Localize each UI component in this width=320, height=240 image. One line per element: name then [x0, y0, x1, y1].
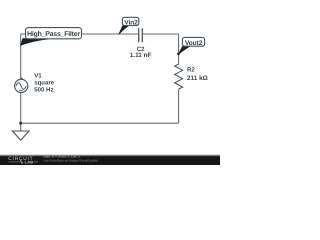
wire bottom horizontal: [21, 122, 179, 124]
svg-text:High_Pass_Filter: High_Pass_Filter: [27, 31, 80, 38]
flag High_Pass_Filter tail: [21, 39, 48, 46]
svg-text:R2: R2: [187, 67, 195, 74]
svg-text:1.11 nF: 1.11 nF: [130, 52, 152, 59]
svg-text:Vout2: Vout2: [185, 40, 203, 47]
capacitor C2: [139, 28, 143, 42]
wire left vertical: [20, 34, 22, 131]
node junction dot: [19, 122, 22, 125]
footer logo CIRCUIT LAB: [8, 156, 38, 164]
svg-text:211 kΩ: 211 kΩ: [187, 75, 208, 82]
ground: [12, 131, 29, 140]
svg-text:http://circuitlab.com/c/qbarV5: http://circuitlab.com/c/qbarV5axqk5cdiv8…: [43, 158, 98, 162]
svg-text:square: square: [34, 80, 55, 87]
flag Vin2: [122, 17, 138, 26]
svg-text:500 Hz: 500 Hz: [34, 87, 53, 94]
wire right vertical: [178, 34, 180, 64]
voltage source V1: [15, 77, 28, 92]
flag High_Pass_Filter: [26, 28, 82, 39]
flag Vin2 tail: [119, 26, 129, 35]
resistor R2: [175, 64, 183, 89]
flag Vout2 tail: [177, 53, 180, 56]
svg-text:Vin2: Vin2: [124, 19, 138, 26]
wire resistor bottom lead: [178, 89, 180, 123]
flag Vout2: [182, 37, 204, 47]
wire top horizontal: [21, 33, 179, 35]
svg-text:LAB: LAB: [25, 159, 34, 164]
